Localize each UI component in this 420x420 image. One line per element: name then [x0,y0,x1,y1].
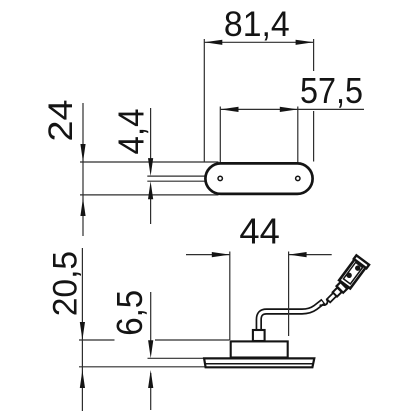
plug collar [337,282,348,293]
extension line plate bottom (for 20,5) [79,366,206,368]
tangent line hole bottom (for 4,4) [147,180,221,182]
dimension line 57,5 [221,107,365,112]
dimension 20,5 vertical line [80,248,85,411]
extension line 44 right [288,252,290,337]
cable gland stub [253,330,265,341]
svg-text:57,5: 57,5 [300,70,363,111]
cable end curl [320,299,328,305]
extension line 81,4 left [203,39,205,162]
svg-text:20,5: 20,5 [47,251,85,316]
plug body [339,257,367,288]
extension line 44 left [229,252,231,341]
extension line 81,4 right [313,39,315,162]
dimension line 44 right tail [289,252,332,257]
plug contact dot 2 [354,264,362,272]
dimension 6,5 vertical line upper [148,292,153,358]
mounting plate flange side view [204,358,314,367]
dimension 24 vertical line [80,103,85,236]
svg-text:4,4: 4,4 [111,109,152,155]
plug tip block [333,288,342,297]
svg-text:44: 44 [239,211,279,252]
plug contact dot 1 [345,272,353,280]
extension line box top (for 20,5) segment a [79,339,115,341]
svg-text:81,4: 81,4 [224,5,290,44]
extension line plate top (for 6,5) [148,357,205,359]
mounting hole left [218,176,222,180]
dimension line 44 left tail [186,252,230,257]
housing box side view [231,341,288,357]
lamp housing top view (obround) [205,163,312,194]
tangent line hole top (for 4,4) [147,175,221,177]
extension line 57,5 right (to hole) [297,107,299,176]
svg-text:6,5: 6,5 [109,290,150,336]
dimension 6,5 vertical line lower [148,370,153,410]
extension line pill bottom (for 24) [80,194,219,196]
mounting hole right [296,176,300,180]
extension line pill top (for 24) [80,161,219,163]
dimension line 81,4 [204,40,313,45]
plug cap [354,255,369,268]
plug inner window [343,262,362,284]
svg-text:24: 24 [42,100,80,142]
extension line box top (for 20,5) segment b [155,339,230,341]
connector plug [320,254,372,306]
dimension 4,4 vertical line upper [148,108,153,176]
white halo of 57,5 text [296,71,365,111]
plug body group (bent axis) [338,255,369,289]
plug wire tube [327,293,337,303]
cable from housing [259,301,324,331]
extension line 57,5 left (to hole) [219,107,221,176]
dimension 4,4 vertical line lower [148,181,153,224]
